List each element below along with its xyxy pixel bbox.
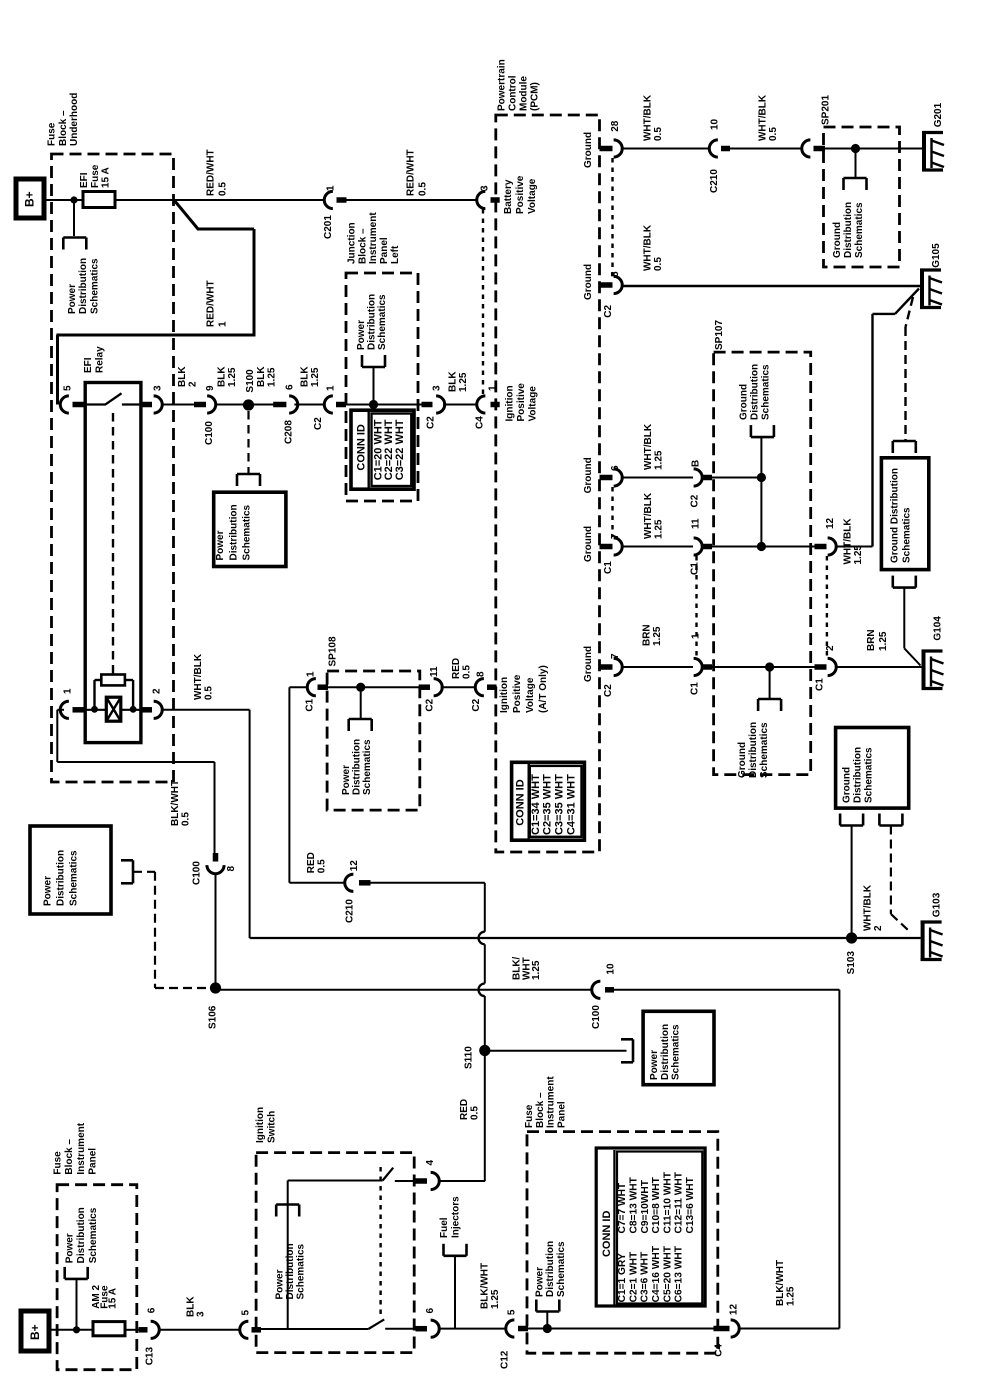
connector C2 pin 3 cup bbox=[436, 396, 445, 413]
wire RED/WHT 1 down to relay pin 5 bbox=[56, 335, 59, 405]
svg-text:RED: RED bbox=[459, 1099, 470, 1120]
svg-text:C2: C2 bbox=[471, 698, 482, 711]
svg-text:1: 1 bbox=[218, 321, 229, 327]
svg-text:Schematics: Schematics bbox=[671, 1024, 682, 1080]
wire stem AM2 reference bbox=[76, 1279, 78, 1329]
wire pin12 to riser (WHT/BLK 1.25) bbox=[835, 546, 872, 548]
svg-text:S103: S103 bbox=[846, 951, 857, 975]
svg-text:B+: B+ bbox=[23, 191, 37, 207]
svg-text:Schematics: Schematics bbox=[556, 1241, 567, 1297]
wire C208 to C2 (BLK 1.25) bbox=[294, 404, 325, 406]
ignition internal riser bbox=[287, 1181, 289, 1330]
svg-text:C2=1 WHT: C2=1 WHT bbox=[628, 1251, 639, 1302]
svg-text:C100: C100 bbox=[192, 861, 203, 885]
connector C2 pin 1 stub bbox=[336, 402, 346, 408]
wire stub to power distribution reference bbox=[73, 200, 75, 236]
svg-text:Ground: Ground bbox=[583, 526, 594, 562]
splice block SP201 dashed box bbox=[824, 127, 900, 267]
svg-text:Distribution: Distribution bbox=[366, 294, 377, 350]
svg-text:CONN ID: CONN ID bbox=[601, 1211, 613, 1258]
svg-text:Power: Power bbox=[275, 1269, 286, 1299]
relay pin 1 cup bbox=[60, 701, 69, 718]
svg-text:Schematics: Schematics bbox=[864, 747, 875, 803]
svg-text:(PCM): (PCM) bbox=[530, 82, 541, 111]
connector C12 pin 5 stub bbox=[518, 1326, 528, 1332]
connector C2 pin B cup bbox=[694, 469, 703, 486]
svg-text:Fuse: Fuse bbox=[90, 164, 101, 188]
PCM ground pin 6 cup bbox=[614, 469, 623, 486]
svg-text:Distribution: Distribution bbox=[228, 504, 239, 560]
svg-text:RED/WHT: RED/WHT bbox=[406, 149, 417, 196]
svg-text:C4=16 WHT: C4=16 WHT bbox=[651, 1245, 662, 1302]
PCM ground pin 28 stub bbox=[600, 146, 613, 152]
svg-text:Ground: Ground bbox=[832, 222, 843, 258]
wire C2-B to SP107 bbox=[712, 477, 761, 479]
ground distribution schematics box (G105/G104) bbox=[881, 458, 928, 570]
svg-text:Ground: Ground bbox=[583, 457, 594, 493]
svg-text:SP107: SP107 bbox=[714, 320, 725, 350]
reference bracket SP201 bbox=[844, 177, 867, 180]
ignition pin 4 stub bbox=[416, 1178, 428, 1184]
power distribution schematics box (S110) bbox=[643, 1011, 714, 1084]
dashed diagonal G105 to schematics box bbox=[906, 297, 914, 327]
wire pin2 to G104 (BRN 1.25) bbox=[835, 666, 921, 668]
svg-text:0.5: 0.5 bbox=[418, 182, 429, 196]
relay K1 EFI relay body bbox=[85, 383, 141, 743]
svg-text:CONN ID: CONN ID bbox=[514, 779, 526, 826]
wire C210 to SP201 (WHT/BLK 0.5) bbox=[730, 148, 803, 150]
wire RED/WHT 1 top segment bbox=[197, 228, 254, 231]
SP107 pin 12 stub bbox=[815, 544, 827, 550]
relay pin 5 cup bbox=[60, 396, 69, 413]
svg-text:SP201: SP201 bbox=[821, 95, 832, 125]
wire EFI fuse to C201 (RED/WHT 0.5) bbox=[115, 199, 326, 201]
connector C210 pin 12 cup bbox=[345, 874, 354, 891]
splice S106 bbox=[210, 982, 221, 993]
svg-text:G103: G103 bbox=[932, 892, 943, 917]
connector C100 pin 10 stub bbox=[605, 987, 614, 993]
wire pin4 to RED riser bbox=[438, 1180, 485, 1182]
connector C2 pin 11 cup bbox=[434, 679, 443, 696]
svg-text:Ground: Ground bbox=[842, 767, 853, 803]
node SP108 splice bbox=[356, 683, 365, 692]
svg-text:C100: C100 bbox=[204, 421, 215, 445]
svg-text:11: 11 bbox=[429, 666, 440, 677]
svg-text:Fuse: Fuse bbox=[524, 1104, 535, 1128]
svg-text:8: 8 bbox=[476, 671, 487, 677]
wire SP201 stem down bbox=[855, 149, 857, 179]
svg-text:Distribution: Distribution bbox=[660, 1024, 671, 1080]
svg-text:Panel: Panel bbox=[557, 1101, 568, 1128]
reference bracket S100 bbox=[237, 473, 260, 476]
wire down to C100 pin 8 bbox=[214, 762, 216, 855]
PCM ground pin 6 stub bbox=[600, 475, 613, 481]
svg-text:8: 8 bbox=[226, 866, 237, 872]
svg-text:Ground Distribution: Ground Distribution bbox=[890, 468, 901, 563]
power distribution schematics box (S100) bbox=[214, 492, 286, 566]
svg-text:Power: Power bbox=[67, 284, 78, 314]
svg-text:1.25: 1.25 bbox=[310, 367, 321, 387]
svg-text:5: 5 bbox=[63, 385, 74, 391]
svg-text:Instrument: Instrument bbox=[546, 1076, 557, 1128]
svg-text:C4: C4 bbox=[714, 1344, 725, 1357]
svg-text:Ground: Ground bbox=[737, 742, 748, 778]
svg-text:1.25: 1.25 bbox=[654, 519, 665, 539]
reference bracket SP108 bbox=[349, 718, 372, 721]
relay pin 3 stub bbox=[140, 402, 152, 408]
svg-text:Schematics: Schematics bbox=[854, 202, 865, 258]
node junction at fuse block feed bbox=[70, 196, 77, 203]
svg-text:Schematics: Schematics bbox=[759, 722, 770, 778]
svg-text:12: 12 bbox=[729, 1304, 740, 1316]
svg-text:C13=6 WHT: C13=6 WHT bbox=[685, 1176, 696, 1233]
relay contact blade bbox=[106, 393, 122, 404]
wire C201 to PCM pin3 (RED/WHT 0.5) bbox=[347, 199, 483, 201]
svg-text:Positive: Positive bbox=[516, 383, 527, 422]
reference bracket ignition bbox=[276, 1203, 299, 1206]
svg-text:15 A: 15 A bbox=[101, 167, 112, 188]
connector C100 pin 10 cup bbox=[592, 981, 601, 998]
svg-text:Voltage: Voltage bbox=[528, 386, 539, 422]
connector C13 pin 6 stub bbox=[139, 1327, 148, 1333]
svg-text:2: 2 bbox=[188, 381, 199, 387]
reference bracket junction block bbox=[362, 366, 385, 369]
connector SP108 C1 pin1 cup bbox=[307, 679, 316, 696]
relay pin 2 cup bbox=[154, 701, 163, 718]
relay coil box bbox=[106, 697, 121, 721]
svg-text:C8=13 WHT: C8=13 WHT bbox=[628, 1176, 639, 1233]
connector C1 pin 1 cup bbox=[694, 658, 703, 675]
wire SP108 internal bbox=[328, 686, 420, 688]
svg-text:Schematics: Schematics bbox=[377, 294, 388, 350]
svg-text:Distribution: Distribution bbox=[545, 1241, 556, 1297]
svg-text:Instrument: Instrument bbox=[368, 212, 379, 264]
svg-text:Injectors: Injectors bbox=[450, 1196, 461, 1238]
svg-text:Distribution: Distribution bbox=[285, 1243, 296, 1299]
node coil junction right bbox=[130, 706, 137, 713]
svg-text:6: 6 bbox=[285, 384, 296, 390]
svg-text:G201: G201 bbox=[933, 102, 944, 127]
svg-text:Battery: Battery bbox=[503, 179, 514, 214]
svg-text:Ignition: Ignition bbox=[499, 677, 510, 713]
svg-text:C100: C100 bbox=[591, 1005, 602, 1029]
wire SP107 riser mid bbox=[760, 478, 762, 547]
svg-text:Block –: Block – bbox=[58, 110, 69, 146]
PCM ground pin 7 cup bbox=[614, 658, 623, 675]
CONN ID table PCM bbox=[512, 762, 585, 840]
svg-text:Distribution: Distribution bbox=[78, 258, 89, 314]
relay coil wire horizontal bbox=[85, 709, 106, 711]
reference bracket G103 dashed bbox=[879, 824, 902, 827]
wire B+ to AM2 fuse bbox=[49, 1329, 94, 1331]
connector C1 pin 1 stub bbox=[702, 664, 712, 670]
connector C2 pin 1 cup bbox=[324, 396, 333, 413]
svg-text:11: 11 bbox=[691, 518, 702, 529]
svg-text:RED: RED bbox=[451, 658, 462, 679]
svg-text:BLK/WHT: BLK/WHT bbox=[170, 780, 181, 826]
wire C2-11 to C2-8 (RED 0.5) bbox=[441, 686, 477, 688]
ignition switch link dotted bbox=[379, 1167, 381, 1319]
svg-text:Distribution: Distribution bbox=[56, 850, 67, 906]
svg-text:Distribution: Distribution bbox=[750, 364, 761, 420]
svg-text:C1: C1 bbox=[815, 678, 826, 691]
wire pin5 to G105 (WHT/BLK 0.5) bbox=[622, 285, 920, 287]
svg-text:BLK/WHT: BLK/WHT bbox=[775, 1260, 786, 1306]
wire RED corner to C210-12 bbox=[289, 882, 345, 884]
svg-text:BRN: BRN bbox=[866, 629, 877, 651]
svg-text:Ignition: Ignition bbox=[504, 385, 515, 421]
wire G105 horizontal to riser bbox=[873, 313, 896, 315]
svg-text:Junction: Junction bbox=[347, 222, 358, 264]
svg-text:C4=31 WHT: C4=31 WHT bbox=[565, 774, 577, 835]
battery feed B+ terminal box 2 bbox=[21, 1311, 49, 1351]
wire RED/WHT 1 bottom horizontal bbox=[56, 334, 255, 337]
pcm internal dotted pin28 to pin5 bbox=[611, 158, 613, 276]
wire pin6 to C2-B (WHT/BLK 1.25) bbox=[622, 477, 693, 479]
connector C4 pin 12 cup bbox=[731, 1320, 740, 1337]
svg-text:Power: Power bbox=[356, 320, 367, 350]
svg-text:S106: S106 bbox=[208, 1005, 219, 1029]
dotted internal C1-11 to C1-1 bbox=[695, 556, 697, 658]
wire relay pin3 to C100 (BLK 2) bbox=[162, 404, 195, 406]
connector C100 pin 9 stub bbox=[194, 402, 206, 408]
svg-text:1: 1 bbox=[306, 671, 317, 677]
ignition bottom contact wire bbox=[385, 1328, 416, 1330]
fuse block - instrument panel dashed box (AM2) bbox=[57, 1185, 137, 1370]
svg-text:3: 3 bbox=[480, 185, 491, 191]
wire diagonal from G105 bbox=[895, 289, 919, 314]
svg-text:BRN: BRN bbox=[642, 624, 653, 646]
ground distribution schematics box (S103) bbox=[836, 728, 909, 809]
wire relay pin1 down bbox=[56, 710, 58, 762]
ground G105 bbox=[920, 269, 924, 310]
fuel injectors stem bbox=[454, 1256, 456, 1329]
SP107 pin 2 stub bbox=[815, 664, 827, 670]
svg-text:G104: G104 bbox=[933, 616, 944, 641]
ignition pin 6 cup bbox=[431, 1320, 440, 1337]
reference bracket fuse block IP bbox=[536, 1310, 559, 1313]
wire relay pin2 down bbox=[249, 710, 251, 938]
connector C208 pin 6 cup bbox=[289, 396, 298, 413]
ignition pin 5 cup bbox=[240, 1321, 249, 1338]
svg-text:1: 1 bbox=[326, 185, 337, 191]
wire C13 to ignition (BLK 3) bbox=[159, 1329, 241, 1331]
node coil junction left bbox=[91, 706, 98, 713]
svg-text:1: 1 bbox=[63, 688, 74, 694]
svg-text:S100: S100 bbox=[245, 369, 256, 393]
svg-text:C6=13 WHT: C6=13 WHT bbox=[674, 1245, 685, 1302]
svg-text:6: 6 bbox=[610, 465, 621, 471]
svg-text:Power: Power bbox=[649, 1050, 660, 1080]
svg-text:Fuse: Fuse bbox=[53, 1151, 64, 1175]
PCM ground pin 7 stub bbox=[600, 544, 613, 550]
svg-text:6: 6 bbox=[147, 1307, 158, 1313]
svg-text:Distribution: Distribution bbox=[76, 1207, 87, 1263]
connector PCM pin3 stub bbox=[491, 197, 500, 203]
ignition internal bottom wire bbox=[256, 1328, 368, 1330]
svg-text:C10=8 WHT: C10=8 WHT bbox=[651, 1176, 662, 1233]
wire stem fuse block reference bbox=[546, 1312, 548, 1329]
wire riser to SP108 C1-1 bbox=[288, 687, 290, 883]
svg-text:Ground: Ground bbox=[739, 384, 750, 420]
svg-text:1.25: 1.25 bbox=[531, 960, 542, 980]
svg-text:2: 2 bbox=[825, 645, 836, 651]
splice block SP107 dashed box bbox=[714, 352, 811, 774]
wire pin6 to C12 (BLK/WHT 1.25) bbox=[438, 1328, 507, 1330]
svg-text:Distribution: Distribution bbox=[853, 747, 864, 803]
svg-text:C2: C2 bbox=[690, 494, 701, 507]
hop over WHT/BLK wire bbox=[479, 932, 485, 945]
junction block - instrument panel left dashed box bbox=[346, 273, 418, 501]
svg-text:C2: C2 bbox=[426, 416, 437, 429]
wire C210-12 to riser bbox=[371, 882, 485, 884]
svg-text:Underhood: Underhood bbox=[69, 93, 80, 146]
svg-text:5: 5 bbox=[241, 1310, 252, 1316]
svg-text:C13: C13 bbox=[144, 1347, 155, 1366]
svg-text:10: 10 bbox=[710, 118, 721, 130]
connector C201 pin 1 cup bbox=[324, 191, 333, 208]
battery feed B+ terminal box bbox=[16, 179, 44, 218]
node SP107 splice mid bbox=[757, 542, 766, 551]
wire relay pin1 bottom across bbox=[57, 761, 214, 763]
splice S110 bbox=[479, 1045, 490, 1056]
connector C4 pin 12 stub bbox=[714, 1326, 730, 1332]
ignition switch blade top bbox=[383, 1168, 394, 1181]
wire stem to S103 bbox=[851, 826, 853, 939]
node SP201 splice bbox=[851, 144, 860, 153]
relay contact wire left bbox=[85, 403, 106, 405]
wire C100-10 to corner bbox=[614, 989, 839, 991]
PCM ground pin 5 cup bbox=[614, 276, 623, 293]
fuse F1 EFI 15A bbox=[83, 192, 115, 208]
ignition pin 6 stub bbox=[416, 1326, 428, 1332]
wire pin7C1 to C1-11 (WHT/BLK 1.25) bbox=[622, 546, 693, 548]
wire B+ to EFI fuse (RED/WHT) bbox=[44, 199, 84, 201]
svg-text:7: 7 bbox=[610, 653, 621, 659]
svg-text:C1=1 GRY: C1=1 GRY bbox=[617, 1253, 628, 1302]
wire pin7C2 to C1-1 (BRN 1.25) bbox=[622, 666, 693, 668]
svg-text:Positive: Positive bbox=[512, 674, 523, 713]
svg-text:C210: C210 bbox=[345, 899, 356, 923]
ignition pin 5 stub bbox=[252, 1327, 262, 1333]
relay resistor link right bbox=[132, 680, 134, 709]
svg-text:5: 5 bbox=[507, 1309, 518, 1315]
svg-text:WHT/BLK: WHT/BLK bbox=[642, 94, 653, 141]
svg-text:C1: C1 bbox=[603, 561, 614, 574]
svg-text:1.25: 1.25 bbox=[227, 367, 238, 387]
connector C210 pin 10 cup bbox=[709, 140, 718, 157]
svg-text:6: 6 bbox=[425, 1308, 436, 1314]
svg-text:BLK: BLK bbox=[300, 366, 311, 387]
dashed stem S100 reference bbox=[247, 411, 249, 473]
svg-text:S110: S110 bbox=[464, 1046, 475, 1069]
connector C1 pin 11 cup bbox=[694, 538, 703, 555]
wire C2-3 to C4 (BLK 1.25) bbox=[443, 404, 478, 406]
svg-text:0.5: 0.5 bbox=[653, 257, 664, 271]
reference bracket S106 bbox=[132, 860, 135, 883]
relay pin 1 stub bbox=[73, 707, 87, 713]
wire C1-11 through SP107 to pin 12 bbox=[712, 546, 816, 548]
svg-text:WHT/BLK: WHT/BLK bbox=[643, 492, 654, 539]
PCM ground pin 28 cup bbox=[614, 140, 623, 157]
wire RED riser middle segment bbox=[484, 944, 486, 983]
svg-text:C11=10 WHT: C11=10 WHT bbox=[662, 1171, 673, 1233]
svg-text:Power: Power bbox=[215, 530, 226, 560]
splice S103 bbox=[846, 932, 857, 943]
svg-text:3: 3 bbox=[195, 1311, 206, 1317]
svg-text:3: 3 bbox=[153, 385, 164, 391]
svg-text:C12=11 WHT: C12=11 WHT bbox=[674, 1171, 685, 1233]
svg-text:B+: B+ bbox=[28, 1324, 42, 1340]
svg-text:BLK: BLK bbox=[256, 366, 267, 387]
svg-text:0.5: 0.5 bbox=[470, 1106, 481, 1120]
wire pin28 to C210 (WHT/BLK 0.5) bbox=[622, 148, 711, 150]
svg-text:B: B bbox=[691, 460, 702, 467]
svg-text:10: 10 bbox=[606, 963, 617, 975]
wire S110 branch to reference bbox=[485, 1050, 627, 1052]
wire to S103 horizontal bbox=[250, 937, 847, 939]
svg-text:EFI: EFI bbox=[83, 357, 94, 373]
svg-text:C2=35 WHT: C2=35 WHT bbox=[542, 774, 554, 835]
svg-text:WHT/BLK: WHT/BLK bbox=[643, 224, 654, 271]
hop over BLK/WHT wire bbox=[479, 983, 485, 996]
reference bracket power distribution bbox=[63, 236, 86, 239]
svg-text:Schematics: Schematics bbox=[761, 364, 772, 420]
connector C2 pin 8 cup bbox=[475, 679, 484, 696]
connector PCM pin3 cup bbox=[477, 191, 486, 208]
connector C208 pin 6 stub bbox=[273, 402, 286, 408]
node junction block splice bbox=[369, 400, 378, 409]
powertrain control module PCM dashed box bbox=[496, 115, 600, 852]
svg-text:WHT/BLK: WHT/BLK bbox=[193, 653, 204, 700]
svg-text:C1: C1 bbox=[690, 682, 701, 695]
svg-text:Relay: Relay bbox=[95, 346, 106, 373]
relay coil cross bbox=[106, 697, 121, 721]
wire C100 to S100 (BLK 1.25) bbox=[215, 404, 244, 406]
svg-text:WHT/BLK: WHT/BLK bbox=[843, 518, 854, 565]
wire RED/WHT 1 right vertical bbox=[253, 229, 256, 335]
wire RED/WHT 1 branch diagonal bbox=[174, 200, 198, 229]
power distribution schematics box (S106) bbox=[30, 826, 111, 914]
reference bracket S110 bbox=[632, 1039, 635, 1062]
svg-text:BLK/WHT: BLK/WHT bbox=[479, 1263, 490, 1309]
wire AM2 fuse to C13 bbox=[125, 1329, 140, 1331]
ground G104 bbox=[922, 650, 926, 691]
svg-text:0.5: 0.5 bbox=[462, 665, 473, 679]
reference bracket SP107 top bbox=[751, 436, 774, 439]
svg-text:Positive: Positive bbox=[515, 175, 526, 214]
svg-text:12: 12 bbox=[349, 860, 360, 872]
svg-text:Voltage: Voltage bbox=[527, 178, 538, 214]
wire C12-5 into fuse block bbox=[528, 1328, 714, 1330]
connector C100 pin 9 cup bbox=[207, 396, 216, 413]
wire riser up to G105 bbox=[871, 314, 873, 547]
svg-text:0.5: 0.5 bbox=[653, 127, 664, 141]
relay resistor link left bbox=[93, 680, 95, 709]
svg-text:Power: Power bbox=[65, 1233, 76, 1263]
svg-text:3: 3 bbox=[432, 385, 443, 391]
svg-text:RED/WHT: RED/WHT bbox=[206, 280, 217, 327]
fuse block - instrument panel dashed box 2 bbox=[527, 1132, 718, 1354]
node AM2 junction bbox=[73, 1326, 80, 1333]
svg-text:1.25: 1.25 bbox=[786, 1286, 797, 1306]
svg-text:C1: C1 bbox=[690, 562, 701, 575]
svg-text:WHT/BLK: WHT/BLK bbox=[758, 94, 769, 141]
svg-text:4: 4 bbox=[425, 1160, 436, 1166]
svg-text:Distribution: Distribution bbox=[352, 739, 363, 795]
svg-text:Schematics: Schematics bbox=[362, 739, 373, 795]
wire relay pin2 right bbox=[162, 709, 250, 711]
